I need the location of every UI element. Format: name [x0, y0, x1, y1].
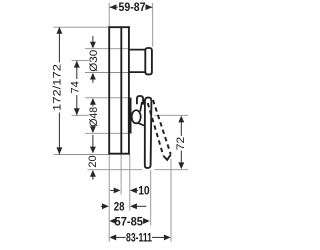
dimension 20 lines [92, 135, 94, 180]
svg-text:83-111: 83-111 [126, 231, 152, 245]
dimension 57-85 arrows [109, 218, 149, 224]
lever rotated dashed right line [153, 100, 171, 154]
extension line 59-87 right vertical [152, 3, 154, 47]
svg-text:172/172: 172/172 [52, 64, 64, 111]
dimension 74 line [76, 61, 78, 115]
dimension 74 arrows [74, 61, 80, 115]
extension line lever axis left [72, 114, 89, 116]
svg-text:Ø30: Ø30 [88, 50, 100, 72]
extension line lever tip below [170, 159, 172, 242]
dimension D30 arrows [90, 42, 96, 80]
dimension 20 arrows [90, 147, 96, 177]
knob stem top line [129, 49, 146, 51]
lever arm loop [132, 110, 141, 123]
dimension 28 arrows [102, 203, 137, 209]
extension line top-left (plate top, y=27) [54, 26, 109, 28]
extension line 59-87 left vertical [108, 3, 110, 27]
extension line knob stem bottom [85, 72, 130, 74]
dimension 172/172 arrows [56, 27, 62, 154]
extension line wall face below [108, 155, 110, 242]
dimension 72 lines [180, 121, 182, 164]
dimension D30 lines [92, 36, 94, 83]
dimension 59-87 arrows [110, 4, 153, 10]
svg-text:59-87: 59-87 [119, 0, 146, 14]
dimension D30 text [88, 50, 100, 72]
svg-text:Ø48: Ø48 [88, 107, 100, 127]
mixer body left edge (wall line) [108, 26, 110, 154]
extension line plate face below [129, 155, 131, 211]
svg-text:28: 28 [114, 200, 125, 214]
dimension 59-87 text [119, 0, 146, 14]
svg-text:74: 74 [70, 81, 82, 94]
lever arm arch [137, 96, 143, 105]
dimension 72 arrows [178, 116, 184, 170]
svg-text:20: 20 [87, 155, 99, 167]
svg-text:72: 72 [175, 137, 187, 151]
svg-text:10: 10 [138, 184, 150, 198]
knob cap [145, 48, 152, 74]
knob stem bottom line [129, 71, 146, 73]
extension line sleeve top [85, 97, 132, 99]
extension line lever lowest point [88, 169, 189, 171]
dimension 57-85 text [115, 214, 144, 228]
extension line plate mid below [120, 155, 122, 195]
extension line lever axis right [154, 114, 188, 116]
extension line knob stem top [85, 48, 130, 50]
lever sleeve [128, 98, 132, 134]
extension line sleeve bottom [85, 132, 132, 134]
dimension 59-87 lines [110, 6, 153, 8]
dimension 28 lines [101, 205, 146, 207]
dimension 83-111 lines [115, 236, 165, 238]
dimension 172/172 text [52, 64, 64, 111]
dimension 83-111 text [126, 231, 152, 245]
dimension 83-111 arrows [109, 234, 170, 240]
dimension 74 text [70, 81, 82, 94]
dimension 72 text [175, 137, 187, 151]
svg-text:57-85: 57-85 [115, 214, 144, 228]
dimension 172/172 line [58, 27, 60, 154]
mixer body right edge (plate face) [128, 26, 130, 154]
dimension D48 shaft segments [92, 105, 94, 127]
dimension 20 text [87, 155, 99, 167]
dimension 10 arrows [114, 187, 137, 193]
mixer body bottom edge [108, 153, 129, 155]
lever arm connector [140, 102, 142, 112]
lever rotated dashed tip [164, 155, 171, 160]
lever rotated dashed left line [148, 103, 164, 156]
dimension D48 arrows [90, 98, 96, 133]
dimension 10 text [138, 184, 150, 198]
extension line grip front below [150, 170, 152, 225]
dimension D48 text [88, 107, 100, 127]
mixer body middle line [120, 26, 122, 154]
dimension 10 lines [110, 189, 138, 191]
lever grip [145, 98, 152, 168]
mixer body top edge [108, 26, 129, 28]
extension line bottom-left (plate bottom, y=153.8) [54, 154, 109, 156]
lever arm lower tail [138, 123, 145, 126]
extension line knob axis [72, 60, 89, 62]
dimension 28 text [114, 200, 125, 214]
